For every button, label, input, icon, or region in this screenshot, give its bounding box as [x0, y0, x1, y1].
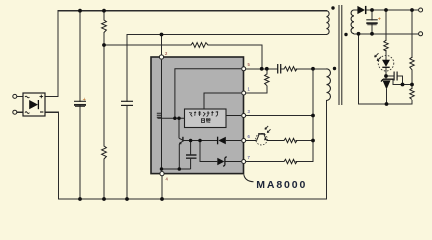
LED of optocoupler: [382, 60, 390, 67]
wire: ref cap leads: [386, 75, 394, 77]
resistor R5 (vertical to pin1, x=266.8): [265, 74, 269, 86]
junction: vcc line at aux top: [311, 67, 315, 71]
wire: startup resistor branch x=104: [103, 11, 105, 20]
wire: AC input top lead to bridge: [17, 95, 23, 97]
wire: row y=140.5: [183, 140, 217, 142]
phase dot aux: [333, 67, 336, 70]
wire: TL431 anode: [386, 90, 388, 105]
capacitor C1 (bulk electrolytic, x=80): [74, 101, 86, 106]
junction: IC source pin at ground rail: [160, 197, 164, 201]
wire: secondary return y=33.8: [354, 33, 418, 35]
junction: startup drop on pin5 row: [260, 67, 264, 71]
junction: ref cap tap at LED cathode: [384, 74, 388, 78]
IC pin bottom (4): [160, 172, 164, 176]
wire: bridge - output down to ground rail: [45, 112, 59, 199]
output terminal bottom: [419, 32, 423, 36]
wire: bridge + output up to top rail: [45, 11, 58, 97]
wire: pin1 inner line to drive box: [204, 93, 241, 109]
junction: divider tap: [410, 83, 414, 87]
wire: secondary output top y=10: [366, 9, 418, 11]
IC pin 6: [242, 139, 246, 143]
wire: pin6 row y=140.5: [246, 140, 256, 142]
wire: gate line y=118: [158, 117, 185, 119]
wire: vertical R to pin1: [266, 69, 268, 74]
junction: Q2 riser on gate line: [177, 117, 181, 121]
wire: secondary return drop x=358.5: [358, 34, 360, 104]
resistor R7 (pin7 row, y=161.5): [284, 159, 297, 163]
resistor R1 (startup upper, x=104): [102, 20, 107, 33]
phase dot primary: [331, 6, 334, 9]
junction: zener riser on diode row: [198, 139, 202, 143]
wire: vcc vertical x=313: [312, 69, 314, 162]
resistor R3 (series feed, y=45): [191, 43, 208, 48]
junction: vcc line at pin3 row: [311, 114, 315, 118]
resistor R6 (photo row, y=140.5): [284, 138, 297, 142]
wire: AC input bottom lead to bridge: [17, 111, 23, 113]
junction: TL431 anode at secondary rail: [385, 102, 389, 106]
zener D4 (inner, points right): [217, 158, 224, 166]
wire: zener D4 lead: [224, 161, 241, 163]
AC input terminal bottom: [13, 110, 17, 114]
transformer T1 secondary winding: [351, 10, 354, 34]
wire: TL431 ref line: [393, 79, 412, 84]
wire: snubber cap branch x=127: [126, 35, 128, 102]
capacitor C6 (inner): [190, 141, 192, 155]
wire: pin5 row y=68.8: [246, 68, 277, 70]
resistor R8 (LED series, x=386): [384, 40, 388, 51]
resistor R10 (divider lower, x=412): [410, 88, 414, 99]
svg-text:MA8000: MA8000: [256, 179, 307, 191]
capacitor C4 (output electrolytic, x=372): [366, 20, 377, 25]
junction: divider at output top wire: [410, 8, 414, 12]
phase dot secondary: [344, 33, 347, 36]
wire: secondary top lead to diode: [354, 9, 358, 11]
junction: pin5 riser on gate line: [173, 117, 177, 121]
IC pin 1: [242, 91, 246, 95]
junction: source line at inner rail: [160, 167, 164, 171]
junction: LED string at output top wire: [384, 8, 388, 12]
wire: IC bottom pin to ground rail: [161, 176, 163, 199]
wire: inner source rail y=169: [162, 168, 191, 170]
svg-text:+: +: [83, 97, 86, 103]
wire: aux winding bottom drop: [326, 100, 328, 199]
capacitor C5 (ref comp cap): [394, 72, 397, 81]
junction: C2 at ground rail: [125, 197, 129, 201]
junction: R5 top on pin5 row: [265, 67, 269, 71]
IC inner wiring: [157, 60, 241, 171]
wire: emitter drop: [178, 144, 180, 169]
transistor Q2: [178, 118, 180, 138]
resistor R2 (startup lower, x=104): [102, 146, 107, 159]
transformer T1 primary winding: [327, 11, 330, 35]
phototransistor of optocoupler: [246, 134, 284, 141]
junction: C5 at ref line: [401, 83, 405, 87]
wire: pin5 inner line: [175, 69, 241, 119]
wire: output cap C4 leads: [371, 10, 373, 20]
junction: bulk cap C1 at top rail: [78, 9, 82, 13]
junction: C1 at ground rail: [78, 197, 82, 201]
diode D3 (inner, points left): [218, 137, 226, 145]
wire: startup feed y=45: [104, 44, 191, 46]
diode D2 (secondary rectifier): [357, 6, 365, 14]
wire: drain drop to IC top pin: [161, 35, 163, 55]
wire: LED string leads: [385, 10, 387, 40]
MOSFET Q1: [157, 113, 162, 117]
wire: secondary ground rail y=104: [359, 103, 413, 105]
IC MA8000 body: [151, 57, 244, 174]
IC pin 3: [242, 114, 246, 118]
junction: drain drop on y=34.5 net: [160, 33, 164, 37]
wire: primary ground rail: [59, 198, 327, 200]
AC input terminal top: [13, 94, 17, 98]
wire: pin7 row y=161.5: [246, 161, 284, 163]
wire: bulk cap C1 branch x=80: [79, 11, 81, 102]
IC pin 7: [242, 160, 246, 164]
shunt regulator TL431: [381, 79, 393, 81]
wire: top DC rail: [58, 10, 327, 12]
soft drive circuit box: [185, 109, 227, 128]
resistor R4 (snubber series, y=68.8): [284, 67, 297, 71]
junction: vcc line at pin6 row: [311, 139, 315, 143]
wire: startup drop x=262: [261, 45, 263, 69]
label MA8000: [244, 175, 254, 182]
IC pin 5: [242, 67, 246, 71]
wire: zener riser: [200, 141, 217, 162]
capacitor C2 (snubber, x=127): [121, 101, 133, 105]
wire: divider branch x=412: [411, 10, 413, 57]
resistor R9 (divider upper, x=412): [410, 57, 414, 70]
junction: emitter drop at inner rail: [178, 167, 182, 171]
junction: startup divider tap: [102, 43, 106, 47]
junction: C4 at output top wire: [370, 8, 374, 12]
junction: C6 riser on diode row: [189, 139, 193, 143]
junction: C4 at secondary return: [370, 32, 374, 36]
wire: diode D3 lead: [226, 140, 241, 142]
capacitor C3 (snubber series plates, y=68.8): [278, 64, 281, 74]
IC pin top (2): [159, 55, 163, 59]
junction: return drop on secondary return: [357, 32, 361, 36]
output terminal top: [419, 8, 423, 12]
junction: startup R at ground rail: [102, 197, 106, 201]
transformer T1 aux winding: [327, 69, 331, 101]
svg-text:+: +: [378, 17, 381, 23]
wire: drain net horizontal y=34.5: [127, 34, 327, 36]
wire: pin3 row y=115.5: [246, 115, 313, 117]
wire: drain/source vertical: [161, 60, 163, 171]
transformer T1 core: [339, 5, 342, 105]
junction: startup R at top rail: [102, 9, 106, 13]
bridge rectifier D1: [23, 93, 45, 116]
soft drive text (drawn strokes): [189, 111, 218, 122]
wire: drive box to pin3: [226, 115, 241, 117]
